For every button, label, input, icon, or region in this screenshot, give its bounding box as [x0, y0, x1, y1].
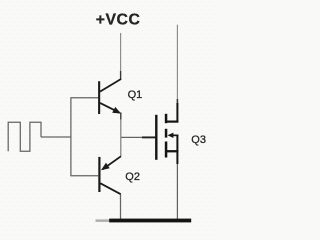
svg-text:+VCC: +VCC [96, 11, 141, 28]
svg-text:Q3: Q3 [191, 134, 206, 146]
svg-text:Q1: Q1 [128, 89, 143, 101]
svg-text:Q2: Q2 [125, 171, 140, 183]
